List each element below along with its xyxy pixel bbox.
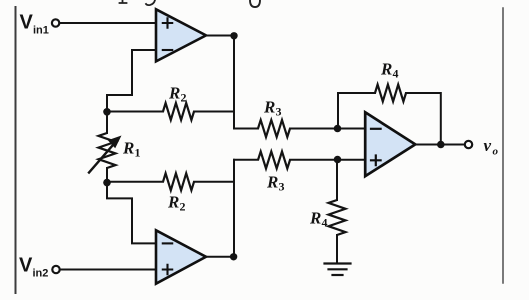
resistor R1 (variable) (89, 133, 122, 173)
svg-text:R: R (309, 209, 321, 228)
wire Vin2 to op-amp U2 + input (60, 269, 156, 271)
cut-off text fragment (y descender) (146, 0, 155, 5)
wire R3 bottom to node D (290, 159, 365, 161)
svg-text:v: v (484, 136, 492, 155)
wire to resistor R3 (top) (234, 128, 258, 130)
op-amp U1 (top) (156, 9, 206, 61)
svg-text:3: 3 (279, 180, 285, 194)
svg-text:V: V (19, 255, 33, 277)
wire U1 output down to R3 (233, 36, 235, 129)
node output dot (437, 141, 445, 149)
value label R1 (122, 139, 141, 160)
output terminal vo (465, 141, 472, 148)
svg-text:o: o (493, 146, 499, 158)
wire to resistor R3 (bottom) (234, 159, 258, 161)
svg-text:R: R (122, 139, 134, 158)
node B (bottom of R1) (103, 179, 111, 187)
svg-text:R: R (167, 193, 179, 212)
svg-text:V: V (20, 12, 34, 34)
label Vin2 (19, 255, 48, 280)
resistor R3 (top) (258, 120, 290, 137)
svg-text:in2: in2 (33, 268, 49, 280)
node C (U3 - input) (334, 125, 342, 133)
resistor R2 (bottom) (163, 173, 194, 190)
svg-text:2: 2 (181, 91, 187, 105)
label vo (484, 136, 499, 158)
value label R3 (top) (263, 98, 282, 119)
svg-text:1: 1 (135, 146, 141, 160)
resistor R4 (feedback) (375, 85, 406, 102)
value label R4 (ground leg) (309, 209, 328, 230)
op-amp U2 (bottom) (156, 230, 206, 283)
svg-text:R: R (266, 173, 278, 192)
wire U1 output (206, 35, 234, 37)
value label R3 (bottom) (266, 173, 285, 194)
svg-text:in1: in1 (33, 25, 49, 37)
wire R2 bottom to node column (194, 181, 234, 183)
wire U3 output (415, 144, 464, 146)
cut-off text fragment (serif foot) (120, 0, 127, 3)
svg-text:R: R (263, 98, 275, 117)
svg-text:R: R (380, 60, 392, 79)
wire R2 top to node column (194, 111, 234, 113)
value label R2 (bottom) (167, 193, 186, 214)
wire Vin1 to op-amp U1 + input (60, 22, 156, 24)
input terminal Vin2 (52, 266, 59, 273)
wire U2 output (206, 256, 234, 258)
value label R4 (feedback) (380, 60, 399, 81)
wire feedback up from node C (338, 93, 375, 129)
left border line (15, 7, 17, 293)
wire R3 top to node C (290, 128, 365, 130)
wire node A to R2 top (107, 111, 163, 113)
label Vin1 (20, 12, 49, 37)
wire node B to R2 bottom (107, 181, 163, 183)
node U1 output dot (230, 32, 237, 39)
wire node B to op-amp U2 - input (107, 183, 156, 243)
svg-text:R: R (168, 84, 180, 103)
wire R1 stem (106, 112, 108, 183)
wire U1 - input feedback path (107, 50, 156, 111)
input terminal Vin1 (52, 19, 59, 26)
resistor R2 (top) (163, 103, 194, 120)
value label R2 (top) (168, 84, 187, 105)
node D (U3 + input) (334, 156, 342, 164)
resistor R4 (ground leg) (329, 200, 346, 235)
op-amp U3 (right) (365, 112, 415, 176)
svg-text:4: 4 (393, 67, 399, 81)
cut-off text fragment (bowl of g) (250, 0, 260, 7)
resistor R3 (bottom) (258, 152, 290, 169)
svg-text:3: 3 (276, 105, 282, 119)
node A (top of R1) (103, 108, 111, 116)
wire R4 feedback down to output node (406, 93, 441, 145)
wire node D down to R4 (ground leg) (336, 160, 338, 201)
ground (325, 264, 351, 276)
wire U2 output up to R3 bottom (233, 160, 235, 257)
node U2 output dot (230, 253, 237, 260)
wire R4 to ground (336, 235, 338, 263)
svg-text:4: 4 (322, 216, 328, 230)
right border line (502, 8, 504, 283)
svg-text:2: 2 (180, 200, 186, 214)
